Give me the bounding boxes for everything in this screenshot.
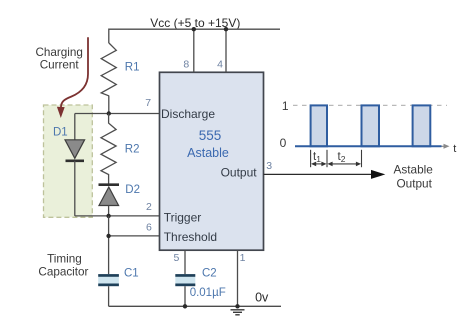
node pin8 on Vcc rail bbox=[192, 27, 196, 31]
svg-text:4: 4 bbox=[217, 58, 223, 70]
svg-text:Capacitor: Capacitor bbox=[38, 265, 88, 278]
svg-text:1: 1 bbox=[240, 252, 246, 264]
wire ground rail bbox=[109, 305, 281, 307]
svg-text:Discharge: Discharge bbox=[161, 107, 215, 121]
svg-text:0: 0 bbox=[280, 136, 287, 150]
wire pin4 bbox=[225, 29, 227, 72]
ground bbox=[231, 310, 245, 315]
op-amp U1 555 chip body bbox=[160, 72, 264, 250]
svg-text:5: 5 bbox=[173, 252, 179, 264]
wire pin1 bbox=[237, 250, 239, 306]
diode D2 bbox=[99, 183, 120, 186]
svg-text:R1: R1 bbox=[125, 61, 140, 73]
resistor R1 bbox=[101, 43, 116, 96]
svg-text:Astable: Astable bbox=[394, 163, 434, 177]
t1 span arrow bbox=[313, 163, 325, 165]
t1 t2 measure ticks bbox=[311, 150, 362, 167]
svg-text:R2: R2 bbox=[125, 144, 140, 156]
charging current arrow bbox=[61, 37, 88, 107]
capacitor C2 bbox=[175, 277, 195, 284]
wire pin7 discharge bbox=[75, 113, 160, 115]
svg-text:Astable: Astable bbox=[187, 146, 229, 160]
waveform 0 axis bbox=[295, 145, 442, 147]
node R1/R2/pin7 junction bbox=[107, 111, 111, 115]
waveform pulse 3 bbox=[413, 105, 431, 146]
svg-text:t: t bbox=[453, 143, 456, 155]
wire pin2 trigger bbox=[75, 215, 160, 217]
t axis arrow bbox=[442, 145, 445, 147]
t2 span arrow bbox=[329, 163, 359, 165]
svg-text:7: 7 bbox=[145, 97, 151, 109]
svg-text:Trigger: Trigger bbox=[164, 210, 202, 224]
svg-text:0.01µF: 0.01µF bbox=[190, 287, 226, 299]
waveform pulse 1 bbox=[311, 105, 327, 146]
capacitor C1 bbox=[98, 277, 119, 284]
wire trigger to threshold to C1 bbox=[108, 216, 110, 274]
node threshold junction bbox=[106, 234, 110, 238]
wire R1 bottom bbox=[108, 96, 110, 114]
svg-text:Output: Output bbox=[221, 165, 258, 179]
wire D1 anode bbox=[74, 114, 76, 141]
node pin1 ground junction bbox=[235, 304, 239, 308]
svg-text:Charging: Charging bbox=[35, 46, 82, 59]
svg-text:2: 2 bbox=[146, 201, 152, 213]
wire C2 bottom bbox=[184, 286, 186, 306]
waveform pulse 2 bbox=[362, 105, 380, 146]
wire pin5 bbox=[184, 250, 186, 274]
diode enclosure dashed box bbox=[44, 105, 93, 217]
svg-text:t1: t1 bbox=[313, 151, 321, 164]
node trigger junction bbox=[106, 214, 110, 218]
diode D1 bbox=[65, 140, 85, 159]
resistor R2 bbox=[101, 114, 116, 185]
waveform level-1 dashed line bbox=[293, 104, 447, 106]
svg-text:6: 6 bbox=[146, 221, 152, 233]
wire pin3 output bbox=[264, 173, 373, 175]
wire Vcc top rail bbox=[109, 29, 280, 43]
wire D1 cathode bbox=[74, 161, 76, 216]
svg-text:Threshold: Threshold bbox=[164, 230, 217, 244]
svg-text:Output: Output bbox=[396, 177, 432, 191]
node pin4 on Vcc rail bbox=[224, 27, 228, 31]
svg-text:Current: Current bbox=[40, 59, 80, 72]
svg-text:D1: D1 bbox=[53, 127, 68, 139]
svg-text:555: 555 bbox=[199, 128, 222, 143]
wire pin6 threshold bbox=[109, 235, 160, 237]
svg-text:C1: C1 bbox=[124, 267, 139, 279]
wire pin8 bbox=[193, 29, 195, 72]
svg-text:t2: t2 bbox=[338, 151, 346, 164]
wire C1 bottom bbox=[108, 286, 110, 306]
svg-text:C2: C2 bbox=[202, 267, 217, 279]
svg-text:1: 1 bbox=[282, 99, 289, 113]
svg-text:8: 8 bbox=[183, 58, 189, 70]
svg-text:0v: 0v bbox=[255, 290, 269, 304]
svg-text:3: 3 bbox=[266, 160, 272, 172]
node C2 ground junction bbox=[183, 304, 187, 308]
svg-text:Timing: Timing bbox=[47, 253, 82, 266]
output arrowhead bbox=[371, 170, 385, 179]
svg-text:D2: D2 bbox=[125, 184, 140, 196]
